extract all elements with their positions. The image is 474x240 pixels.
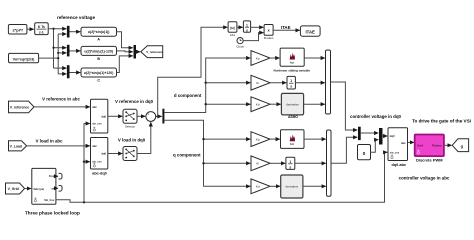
wire error branch to Abs	[158, 27, 228, 116]
svg-text:s: s	[289, 165, 291, 169]
wire gain Kd q to ASMO2	[270, 185, 280, 187]
svg-text:Uref: Uref	[417, 144, 423, 148]
integrator 1/s	[243, 21, 250, 32]
svg-text:V load in dq0: V load in dq0	[118, 138, 146, 143]
wire 2*pi*f to integrator	[27, 28, 34, 30]
svg-text:Kd: Kd	[256, 185, 260, 189]
svg-text:controller voltage in abc: controller voltage in abc	[399, 176, 450, 181]
svg-text:Freq: Freq	[49, 175, 55, 178]
mux M5	[358, 127, 361, 140]
svg-text:V_reference: V_reference	[146, 50, 163, 54]
selector Selector2	[123, 147, 137, 161]
svg-text:0: 0	[363, 151, 366, 156]
svg-text:sin_cos: sin_cos	[92, 123, 102, 126]
wire mux M4 to Goto V_reference	[136, 51, 140, 53]
svg-text:Kp: Kp	[256, 137, 260, 141]
from tag V_Grid	[6, 183, 25, 194]
svg-text:V_Grid: V_Grid	[8, 187, 19, 191]
svg-text:Three phase locked loop: Three phase locked loop	[25, 210, 80, 215]
transform abc-dq0 1	[91, 99, 108, 133]
svg-text:2*pi*f: 2*pi*f	[12, 28, 23, 33]
svg-text:dq0: dq0	[101, 114, 106, 118]
svg-text:abc-dq0: abc-dq0	[92, 172, 107, 176]
gain Ki q	[251, 156, 270, 171]
gain Kp d	[251, 51, 270, 66]
gain Kd d	[251, 97, 270, 112]
wire Sin_Cos bus	[56, 152, 387, 203]
svg-text:1: 1	[290, 79, 292, 83]
gain Ki d	[251, 75, 270, 90]
svg-text:ASMO: ASMO	[288, 115, 298, 119]
wire Clock to Product	[243, 33, 263, 41]
wire dq0-abc to Discrete PWM	[408, 141, 415, 143]
svg-text:abc: abc	[92, 144, 97, 148]
constant 0	[358, 145, 371, 160]
svg-text:derivative: derivative	[286, 185, 299, 189]
mux M3	[67, 65, 70, 78]
wire Abs to integrator	[237, 26, 243, 28]
wire mux M3 to Fcn C	[70, 72, 81, 74]
wire gain Ki d to integrator1	[270, 82, 286, 84]
svg-text:u(2)*sin(u(1)-120): u(2)*sin(u(1)-120)	[84, 49, 113, 53]
wire demux d output	[164, 58, 250, 113]
wire sum to demux	[156, 115, 162, 117]
wire gain Kd d to ASMO	[270, 103, 281, 105]
svg-text:V reference in abc: V reference in abc	[42, 97, 80, 102]
wire gain Kp q to fcn2	[270, 138, 280, 140]
svg-text:Selector: Selector	[125, 125, 135, 129]
mux M6	[379, 128, 383, 145]
wire V_Load to abc-dq0 2	[27, 145, 90, 147]
wire mux M5 to mux M6	[361, 132, 379, 134]
add block Add1	[326, 50, 331, 114]
Fcn B u(2)*sin(u(1)-120)	[81, 46, 117, 60]
gain Kp q	[251, 132, 270, 147]
mux M2	[67, 45, 70, 57]
wire wt to terminator T2	[56, 187, 58, 189]
Fcn C u(2)*sin(u(1)+120)	[81, 68, 117, 82]
svg-text:|u|: |u|	[230, 26, 234, 30]
svg-text:sin_cos: sin_cos	[92, 160, 102, 163]
svg-text:+: +	[147, 113, 149, 117]
svg-text:fcn: fcn	[290, 142, 294, 146]
svg-text:Kd: Kd	[256, 103, 260, 107]
svg-text:q component: q component	[173, 152, 201, 157]
add block Add2	[327, 130, 332, 196]
svg-text:Nonlinear sliding variable: Nonlinear sliding variable	[274, 69, 311, 73]
wire Fcn A to mux M4	[117, 32, 133, 48]
fcn block nonlinear sliding variable d	[274, 48, 311, 73]
svg-text:sin_cos: sin_cos	[390, 152, 400, 155]
svg-text:Pulses: Pulses	[432, 144, 442, 148]
svg-text:V_Load: V_Load	[10, 144, 22, 148]
wire Vm bus	[39, 34, 67, 74]
wire Freq to terminator T1	[56, 175, 58, 177]
svg-text:V load in abc: V load in abc	[35, 138, 63, 143]
wire integrator1 to Add1	[295, 82, 324, 84]
gain Kd q	[251, 179, 270, 194]
svg-text:Sin_Cos: Sin_Cos	[44, 199, 55, 202]
mux M4	[134, 45, 137, 59]
svg-text:K Ts: K Ts	[38, 25, 45, 29]
svg-text:s: s	[246, 28, 248, 32]
wire gain Ki q to integrator2	[270, 162, 285, 164]
svg-text:1: 1	[289, 160, 291, 164]
wire constant 0 to mux M6	[371, 140, 379, 153]
display ITAE	[300, 26, 320, 36]
wire Fcn B to mux M4	[117, 50, 133, 53]
wire ASMO to Add1	[304, 103, 325, 105]
discrete integrator K Ts/z-1	[35, 23, 49, 35]
wire Add2 to mux M5	[331, 137, 357, 163]
goto tag V_reference	[141, 46, 163, 58]
wire Fcn C to mux M4	[117, 56, 133, 73]
integrator 1/s d	[287, 76, 295, 89]
svg-text:Product: Product	[264, 36, 274, 40]
transform dq0-abc	[388, 128, 408, 167]
wire mux M2 to Fcn B	[70, 50, 81, 52]
svg-text:abc: abc	[401, 141, 406, 145]
pwm block Discrete PWM	[415, 135, 444, 163]
Fcn A u(2)*sin(u(1))	[81, 27, 117, 41]
svg-text:Ki: Ki	[256, 162, 259, 166]
sum S1	[146, 112, 156, 122]
from tag V_reference	[9, 101, 35, 113]
wire fcn2 to Add2	[304, 138, 326, 140]
pll block Three phase locked loop	[25, 168, 80, 215]
label reference voltage	[57, 15, 95, 20]
wire sin_cos branch to abc-dq0 blocks	[83, 124, 90, 203]
svg-text:Vabc (pu): Vabc (pu)	[33, 188, 44, 191]
fcn block nonlinear sliding variable q	[281, 130, 305, 149]
wire gain Kp d to fcn1	[270, 57, 279, 59]
svg-text:Clock: Clock	[236, 45, 244, 49]
svg-text:abc: abc	[92, 105, 97, 109]
wire Add1 to mux M5	[331, 82, 358, 130]
svg-text:z-1: z-1	[39, 30, 44, 34]
wire abc-dq0 2 to Selector2	[108, 153, 123, 155]
svg-text:1: 1	[246, 23, 248, 27]
wire wt bus	[48, 28, 66, 69]
wire mux M1 to Fcn A	[70, 31, 81, 33]
constant 2*pi*f	[8, 25, 27, 35]
svg-text:d component: d component	[174, 93, 202, 98]
selector Selector1	[123, 109, 137, 128]
svg-text:dq0-abc: dq0-abc	[392, 163, 407, 167]
terminator T1	[59, 173, 62, 179]
svg-text:fcn: fcn	[290, 60, 294, 64]
clock Clock	[236, 38, 244, 49]
svg-text:Vm*sqrt(2/3): Vm*sqrt(2/3)	[13, 57, 35, 61]
svg-text:C: C	[97, 78, 100, 82]
wire abc-dq0 1 to Selector1	[108, 115, 123, 117]
svg-text:Abs: Abs	[230, 33, 236, 37]
svg-text:wt: wt	[52, 187, 55, 190]
svg-text:V_reference: V_reference	[10, 106, 30, 110]
constant Vm*sqrt(2/3)	[9, 53, 39, 62]
wire integrator to Product	[251, 26, 264, 28]
svg-text:B: B	[97, 57, 100, 61]
wire Selector2 to sum	[137, 122, 151, 153]
product Product	[264, 25, 274, 41]
transform abc-dq0 2	[91, 138, 108, 176]
wire fcn1 to Add1	[304, 57, 325, 59]
svg-text:reference voltage: reference voltage	[57, 15, 95, 20]
svg-text:s: s	[290, 85, 292, 89]
svg-text:Kp: Kp	[256, 56, 260, 60]
svg-text:Discrete PWM: Discrete PWM	[416, 157, 443, 162]
wire V_reference to abc-dq0 1	[34, 106, 90, 108]
terminator T2	[59, 186, 62, 192]
wire Product to ITAE display, net ITAE	[273, 29, 300, 31]
wire Selector1 to sum	[137, 115, 145, 117]
observer ASMO d	[281, 93, 303, 119]
svg-text:controller voltage in dq0: controller voltage in dq0	[350, 114, 402, 119]
svg-text:u(2)*sin(u(1)+120): u(2)*sin(u(1)+120)	[84, 71, 113, 75]
svg-text:u(2)*sin(u(1)): u(2)*sin(u(1))	[88, 30, 110, 34]
integrator 1/s q	[286, 157, 295, 169]
svg-text:To drive the gate of the VSI: To drive the gate of the VSI	[412, 118, 471, 123]
wire V_Grid to PLL	[25, 188, 32, 190]
svg-text:dq0: dq0	[390, 134, 395, 138]
svg-text:dq0: dq0	[101, 152, 106, 156]
from tag V_Load	[9, 141, 27, 151]
svg-text:ITAE: ITAE	[281, 25, 291, 30]
observer ASMO q	[281, 175, 303, 198]
wire Discrete PWM to goto g	[444, 144, 452, 146]
wire integrator2 to Add2	[295, 162, 326, 164]
goto tag g	[452, 139, 468, 152]
svg-text:V reference in dq0: V reference in dq0	[115, 99, 154, 104]
mux M1	[67, 26, 70, 38]
wire demux q output	[164, 120, 250, 186]
svg-text:A: A	[97, 38, 100, 42]
svg-text:Ki: Ki	[256, 81, 259, 85]
demux D1	[162, 109, 164, 124]
wire ASMO2 to Add2	[303, 185, 326, 187]
wire mux M6 to dq0-abc	[383, 135, 388, 137]
svg-text:ITAE: ITAE	[305, 30, 315, 35]
svg-text:derivative: derivative	[286, 102, 299, 106]
abs block Abs	[228, 22, 237, 38]
